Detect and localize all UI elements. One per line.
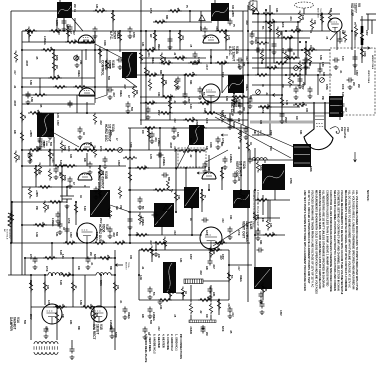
svg-text:120K: 120K (67, 146, 69, 152)
svg-text:VID AMP: VID AMP (350, 3, 354, 17)
svg-text:.001: .001 (45, 326, 47, 331)
svg-text:H.V. RECT: H.V. RECT (92, 324, 96, 340)
svg-text:330: 330 (101, 8, 104, 13)
svg-text:.047: .047 (149, 240, 152, 245)
svg-text:820K: 820K (114, 332, 117, 338)
svg-text:8. HORIZ DEFL PLATE: 8. HORIZ DEFL PLATE (144, 334, 148, 363)
svg-text:120K: 120K (63, 145, 66, 151)
svg-text:.002: .002 (215, 26, 217, 31)
svg-text:100K: 100K (206, 100, 209, 106)
svg-text:.001: .001 (147, 52, 150, 57)
svg-text:120K: 120K (205, 118, 207, 124)
svg-text:ALL VOLTAGES MEASURED FROM CHA: ALL VOLTAGES MEASURED FROM CHASSIS TO PO… (355, 190, 359, 290)
svg-text:1MEG: 1MEG (239, 275, 242, 282)
svg-text:.047: .047 (287, 55, 290, 60)
svg-text:560: 560 (23, 320, 26, 325)
svg-text:.0047: .0047 (13, 100, 16, 107)
svg-text:.0047: .0047 (205, 64, 208, 70)
svg-text:1MEG: 1MEG (77, 70, 80, 77)
svg-text:820K: 820K (221, 326, 223, 332)
svg-text:250V: 250V (284, 117, 287, 123)
svg-text:8.2K: 8.2K (235, 98, 238, 103)
svg-text:.001: .001 (223, 60, 226, 65)
svg-text:470K: 470K (221, 138, 224, 144)
svg-text:33K: 33K (341, 30, 343, 35)
svg-text:BOOST: BOOST (125, 262, 127, 270)
svg-text:135V: 135V (187, 97, 190, 103)
svg-text:4.7K: 4.7K (227, 35, 230, 40)
svg-text:470K: 470K (67, 218, 70, 224)
svg-text:1K: 1K (189, 218, 191, 221)
svg-text:120K: 120K (89, 304, 92, 310)
svg-text:HORIZ OSC: HORIZ OSC (104, 124, 108, 142)
svg-text:1K: 1K (101, 240, 104, 243)
svg-text:1K: 1K (261, 84, 263, 87)
svg-text:12K: 12K (242, 62, 245, 67)
svg-text:22K: 22K (13, 130, 15, 135)
svg-text:12K: 12K (295, 26, 297, 31)
svg-text:.0047: .0047 (169, 142, 172, 149)
svg-text:6.8K: 6.8K (301, 102, 304, 107)
svg-text:10K: 10K (207, 167, 210, 172)
svg-text:.002: .002 (221, 218, 223, 223)
svg-text:22K: 22K (205, 266, 207, 271)
svg-text:180: 180 (305, 108, 308, 113)
svg-text:.002: .002 (73, 39, 76, 44)
svg-text:3. CATHODE: 3. CATHODE (166, 334, 170, 350)
svg-text:470K: 470K (149, 8, 152, 14)
svg-text:.047: .047 (123, 84, 126, 89)
svg-text:5%: 5% (141, 206, 143, 209)
svg-text:8.2K: 8.2K (59, 160, 62, 165)
svg-text:470K: 470K (237, 230, 240, 236)
svg-text:33K: 33K (98, 192, 101, 197)
svg-text:330: 330 (69, 154, 72, 159)
svg-text:8.2K: 8.2K (83, 206, 85, 211)
svg-text:100K: 100K (103, 40, 106, 46)
svg-text:.002: .002 (173, 118, 175, 123)
svg-text:1MEG: 1MEG (127, 312, 130, 319)
svg-text:1K: 1K (82, 132, 85, 135)
svg-text:135V: 135V (279, 310, 282, 316)
svg-text:4.7K: 4.7K (239, 130, 242, 135)
svg-text:.047: .047 (231, 312, 234, 317)
svg-text:820K: 820K (151, 47, 154, 53)
svg-text:HORIZ COILS: HORIZ COILS (371, 55, 373, 70)
svg-text:.001: .001 (154, 137, 157, 142)
svg-text:68K: 68K (279, 31, 282, 36)
svg-text:330: 330 (46, 285, 49, 290)
svg-text:10K: 10K (237, 64, 239, 69)
svg-text:.001: .001 (51, 158, 53, 163)
svg-text:330: 330 (189, 330, 192, 335)
svg-text:.001: .001 (216, 247, 219, 252)
svg-text:270K: 270K (281, 48, 283, 54)
svg-text:10K: 10K (115, 206, 117, 211)
svg-text:SYNC CLIP: SYNC CLIP (230, 99, 234, 117)
svg-text:39K: 39K (189, 80, 192, 85)
svg-text:A.G.C.: A.G.C. (228, 46, 232, 56)
svg-text:4.7K: 4.7K (149, 154, 152, 159)
svg-text:68K: 68K (109, 266, 111, 271)
svg-text:820K: 820K (242, 195, 245, 201)
svg-text:820K: 820K (99, 280, 102, 286)
svg-text:VERT OUT: VERT OUT (241, 221, 245, 239)
svg-text:.002: .002 (227, 303, 229, 308)
svg-text:68K: 68K (77, 326, 79, 331)
svg-text:5%: 5% (261, 26, 263, 29)
svg-text:135V: 135V (221, 254, 223, 260)
svg-text:ALL VOLTAGES ARE D.C. UNLESS O: ALL VOLTAGES ARE D.C. UNLESS OTHERWISE S… (351, 190, 355, 290)
svg-text:8.2K: 8.2K (59, 280, 62, 285)
svg-text:330: 330 (259, 120, 262, 125)
svg-text:HOLD: HOLD (40, 141, 42, 148)
svg-text:68K: 68K (135, 90, 138, 95)
svg-text:NOTES:: NOTES: (366, 190, 370, 201)
svg-text:12K: 12K (205, 146, 207, 151)
svg-text:22K: 22K (237, 118, 239, 123)
svg-text:330: 330 (256, 215, 259, 220)
svg-text:135V: 135V (365, 30, 367, 36)
svg-text:10K: 10K (187, 148, 190, 153)
svg-text:560: 560 (107, 76, 110, 81)
svg-text:100K: 100K (363, 51, 366, 57)
svg-text:+280V: +280V (169, 94, 172, 101)
svg-text:.002: .002 (261, 48, 263, 53)
svg-text:8.2K: 8.2K (301, 15, 304, 20)
svg-text:33K: 33K (275, 8, 278, 13)
svg-text:560: 560 (329, 8, 332, 13)
svg-text:470K: 470K (106, 255, 109, 261)
svg-text:TO ANT: TO ANT (247, 2, 250, 11)
svg-text:HORIZ DISCH: HORIZ DISCH (97, 171, 101, 192)
svg-text:6.8K: 6.8K (79, 300, 82, 305)
svg-text:1MEG: 1MEG (245, 84, 248, 91)
svg-text:DAMPER: DAMPER (9, 317, 13, 332)
svg-text:+280V: +280V (29, 130, 32, 137)
svg-text:2.2MEG: 2.2MEG (95, 232, 98, 241)
svg-text:10K: 10K (313, 20, 316, 25)
svg-text:4.7K: 4.7K (47, 300, 50, 305)
svg-text:1K: 1K (249, 142, 252, 145)
svg-text:820K: 820K (63, 175, 66, 181)
svg-text:68K: 68K (46, 205, 49, 210)
svg-text:15K: 15K (212, 250, 215, 255)
svg-text:.0047: .0047 (25, 60, 28, 67)
svg-text:68K: 68K (173, 266, 175, 271)
svg-text:4.7K: 4.7K (56, 113, 59, 118)
svg-text:10K: 10K (271, 232, 274, 237)
svg-text:250V: 250V (157, 110, 159, 116)
svg-text:2.2MEG: 2.2MEG (157, 138, 159, 147)
svg-text:6.8K: 6.8K (225, 96, 228, 101)
svg-text:YOKE: YOKE (257, 130, 259, 137)
svg-text:820K: 820K (309, 166, 312, 172)
svg-text:120K: 120K (41, 222, 44, 228)
svg-text:1MEG: 1MEG (151, 57, 154, 64)
svg-text:180: 180 (237, 177, 240, 182)
svg-text:3.3K: 3.3K (221, 110, 223, 115)
svg-text:15K: 15K (79, 60, 82, 65)
svg-text:VERT COILS: VERT COILS (367, 70, 369, 84)
svg-text:15K: 15K (321, 96, 323, 101)
svg-text:33K: 33K (299, 130, 302, 135)
svg-text:270K: 270K (99, 146, 101, 152)
svg-text:1MEG: 1MEG (119, 90, 122, 97)
svg-text:.001: .001 (289, 16, 292, 21)
svg-text:250V: 250V (29, 280, 32, 286)
svg-text:.002: .002 (189, 326, 191, 331)
svg-text:.002: .002 (101, 170, 104, 175)
svg-text:MEASUREMENTS SHOWN WITH COLD C: MEASUREMENTS SHOWN WITH COLD CHASSIS OPE… (314, 190, 318, 294)
svg-text:100K: 100K (221, 72, 223, 78)
svg-text:.002: .002 (99, 120, 102, 125)
svg-text:15K: 15K (119, 205, 122, 210)
svg-text:1MEG: 1MEG (157, 44, 159, 51)
svg-text:2.2MEG: 2.2MEG (229, 154, 232, 163)
svg-text:AND TEST POINTS SHOWN IN PICTU: AND TEST POINTS SHOWN IN PICTURES WITH A… (303, 190, 307, 291)
svg-text:135V: 135V (69, 232, 72, 238)
svg-text:.0047: .0047 (181, 55, 184, 62)
svg-text:12K: 12K (55, 232, 58, 237)
svg-text:.002: .002 (112, 232, 115, 237)
svg-text:.002: .002 (173, 230, 175, 235)
svg-text:330: 330 (322, 72, 325, 77)
svg-text:270K: 270K (269, 130, 272, 136)
svg-text:10K: 10K (203, 108, 206, 113)
svg-text:15K: 15K (135, 232, 138, 237)
svg-text:6.8K: 6.8K (176, 132, 179, 137)
svg-text:1K: 1K (30, 31, 33, 34)
svg-text:820K: 820K (232, 122, 235, 128)
svg-text:180: 180 (116, 285, 119, 290)
svg-text:10K: 10K (177, 195, 180, 200)
svg-text:39K: 39K (259, 240, 262, 245)
svg-text:33K: 33K (61, 314, 63, 319)
svg-text:.001: .001 (139, 215, 142, 220)
svg-text:1K: 1K (51, 153, 54, 156)
svg-text:120K: 120K (205, 230, 207, 236)
svg-text:SHOWN AT 60 CYCLE RATE FIELD: SHOWN AT 60 CYCLE RATE FIELD (252, 190, 255, 228)
svg-text:270K: 270K (195, 120, 198, 126)
svg-text:2. GRID NO.2: 2. GRID NO.2 (170, 334, 174, 351)
svg-text:4.7K: 4.7K (197, 57, 200, 62)
svg-text:2.2MEG: 2.2MEG (43, 36, 46, 45)
svg-text:6.8K: 6.8K (191, 72, 194, 77)
svg-text:135V: 135V (301, 84, 303, 90)
svg-text:3.3K: 3.3K (93, 314, 95, 319)
svg-text:1K: 1K (225, 56, 227, 59)
svg-text:7. VERT DEFL: 7. VERT DEFL (148, 334, 152, 352)
svg-text:68K: 68K (163, 57, 166, 62)
svg-text:8.2K: 8.2K (341, 56, 343, 61)
svg-text:.0047: .0047 (108, 63, 111, 70)
svg-text:15K: 15K (289, 35, 292, 40)
svg-text:AC: AC (3, 229, 6, 232)
svg-text:1. GRID NO.1: 1. GRID NO.1 (175, 334, 179, 351)
svg-text:.0047: .0047 (173, 146, 176, 152)
svg-text:1K: 1K (121, 240, 124, 243)
svg-text:120K: 120K (129, 142, 132, 148)
svg-text:1K: 1K (73, 9, 76, 12)
svg-text:1K: 1K (147, 332, 150, 335)
svg-text:22K: 22K (83, 158, 85, 163)
svg-text:1K: 1K (184, 291, 187, 294)
svg-text:100K: 100K (341, 84, 343, 90)
svg-text:135V: 135V (189, 254, 191, 260)
svg-text:12K: 12K (308, 62, 311, 67)
svg-text:2.2MEG: 2.2MEG (51, 218, 53, 227)
svg-text:A.F.C.: A.F.C. (109, 31, 113, 40)
svg-text:6. ANODE NO.2: 6. ANODE NO.2 (153, 334, 157, 354)
svg-text:4.7K: 4.7K (285, 100, 288, 105)
svg-text:22K: 22K (212, 292, 215, 297)
svg-text:15K: 15K (67, 272, 70, 277)
svg-text:180: 180 (129, 255, 132, 260)
svg-text:+280V: +280V (57, 28, 60, 35)
svg-text:180: 180 (309, 45, 312, 50)
svg-text:10K: 10K (229, 215, 232, 220)
svg-text:CONDENSER VALUES LESS THAN 1 I: CONDENSER VALUES LESS THAN 1 IN MF, ABOV… (325, 190, 329, 287)
svg-text:.002: .002 (17, 155, 20, 160)
svg-text:560: 560 (49, 142, 52, 147)
svg-text:270K: 270K (29, 254, 31, 260)
svg-text:PIX: PIX (340, 127, 344, 131)
svg-text:.047: .047 (344, 107, 347, 112)
svg-text:10K: 10K (261, 218, 263, 223)
svg-text:6.8K: 6.8K (61, 254, 63, 259)
svg-text:1K: 1K (79, 195, 82, 198)
svg-text:MEASUREMENTS TAKEN WITH NO SIG: MEASUREMENTS TAKEN WITH NO SIGNAL INPUT … (344, 190, 348, 291)
svg-text:.002: .002 (245, 56, 247, 61)
svg-text:CONTROL: CONTROL (101, 60, 105, 76)
svg-text:22K: 22K (141, 314, 143, 319)
svg-text:330: 330 (58, 172, 61, 177)
svg-text:100K: 100K (266, 104, 269, 110)
svg-text:VOLTMETER. SETTING OF CONTRAST: VOLTMETER. SETTING OF CONTRAST UNIT AND … (337, 190, 341, 291)
svg-text:560: 560 (115, 232, 118, 237)
svg-text:470K: 470K (191, 117, 194, 123)
svg-text:6.8K: 6.8K (321, 62, 323, 67)
svg-text:560: 560 (149, 320, 152, 325)
svg-text:10K: 10K (159, 305, 162, 310)
svg-text:68K: 68K (159, 70, 162, 75)
svg-text:3.3K: 3.3K (189, 104, 191, 109)
svg-text:12K: 12K (179, 258, 182, 263)
svg-text:15K: 15K (35, 206, 37, 211)
svg-text:SELECTOR IN CHANNEL POSITION.: SELECTOR IN CHANNEL POSITION. ELECTROLYT… (333, 190, 337, 291)
svg-text:3.3K: 3.3K (139, 275, 142, 280)
svg-text:250V: 250V (29, 314, 31, 320)
svg-text:270K: 270K (45, 266, 47, 272)
svg-text:RESISTANCE VALUES IN OHMS. K=1: RESISTANCE VALUES IN OHMS. K=1000 OHMS M… (318, 190, 322, 289)
svg-text:4 POLE SYNC PULSE WITH VERT IN: 4 POLE SYNC PULSE WITH VERT INT (256, 190, 258, 231)
svg-text:PIN CONNECTIONS: PIN CONNECTIONS (179, 334, 183, 359)
svg-text:ALL DC VOLTAGES TO BE MEASURED: ALL DC VOLTAGES TO BE MEASURED WITH VTVM… (348, 190, 352, 288)
svg-text:68K: 68K (167, 177, 170, 182)
svg-text:6.8K: 6.8K (30, 97, 33, 102)
svg-text:22K: 22K (69, 320, 72, 325)
svg-text:+280V: +280V (231, 10, 234, 17)
svg-text:135V: 135V (355, 70, 358, 76)
svg-text:.047: .047 (151, 100, 154, 105)
svg-text:10K: 10K (157, 92, 160, 97)
svg-text:VOLTAGES SHOWN ARE TAKEN FROM: VOLTAGES SHOWN ARE TAKEN FROM A LINE VOL… (311, 190, 315, 287)
svg-text:250V: 250V (99, 218, 101, 224)
svg-text:120K: 120K (167, 60, 170, 66)
svg-text:4. HEATER: 4. HEATER (161, 334, 165, 348)
svg-text:10K: 10K (157, 254, 159, 259)
svg-text:12K: 12K (269, 223, 272, 228)
svg-text:.047: .047 (13, 70, 16, 75)
svg-text:470K: 470K (132, 32, 135, 38)
svg-text:+280V: +280V (35, 190, 38, 197)
svg-text:CAPACITOR VALUES IN MICROFARAD: CAPACITOR VALUES IN MICROFARADS UNLESS O… (329, 190, 333, 292)
svg-text:.002: .002 (143, 165, 146, 170)
svg-text:.002: .002 (157, 326, 159, 331)
svg-text:68K: 68K (165, 15, 168, 20)
svg-text:.047: .047 (237, 266, 240, 271)
svg-text:2.2MEG: 2.2MEG (162, 157, 165, 166)
svg-text:12K: 12K (264, 287, 267, 292)
svg-text:560: 560 (130, 107, 133, 112)
svg-text:820K: 820K (109, 130, 112, 136)
svg-text:120K: 120K (281, 22, 283, 28)
svg-text:39K: 39K (253, 130, 255, 135)
svg-text:VERT OSC: VERT OSC (235, 161, 239, 178)
svg-text:AND SND: AND SND (317, 8, 320, 18)
svg-text:3.3K: 3.3K (35, 232, 38, 237)
svg-text:1K: 1K (62, 227, 65, 230)
svg-text:6.8K: 6.8K (319, 55, 322, 60)
svg-text:820K: 820K (55, 55, 58, 61)
svg-text:820K: 820K (259, 165, 262, 171)
svg-text:6.8K: 6.8K (29, 80, 32, 85)
svg-text:.047: .047 (199, 26, 202, 31)
svg-text:.002: .002 (75, 232, 78, 237)
svg-text:470K: 470K (261, 108, 264, 114)
svg-text:.047: .047 (212, 264, 215, 269)
svg-text:12K: 12K (95, 4, 98, 9)
svg-text:.047: .047 (112, 92, 115, 97)
svg-text:8.2K: 8.2K (341, 92, 344, 97)
svg-text:820K: 820K (93, 254, 95, 260)
svg-text:ALL RESISTORS ARE 1/2 WATT UNL: ALL RESISTORS ARE 1/2 WATT UNLESS OTHERW… (322, 190, 326, 287)
svg-text:.002: .002 (245, 20, 248, 25)
svg-text:10K: 10K (77, 266, 79, 271)
svg-text:12K: 12K (61, 304, 64, 309)
svg-text:.002: .002 (153, 72, 156, 77)
svg-text:270K: 270K (289, 178, 292, 184)
svg-text:5. HEATER: 5. HEATER (157, 334, 161, 348)
svg-text:39K: 39K (164, 80, 167, 85)
svg-text:OF 117 V AC. CIRCLED LETTERS I: OF 117 V AC. CIRCLED LETTERS INDICATE AL… (307, 190, 311, 284)
svg-text:68K: 68K (109, 326, 111, 331)
svg-text:180: 180 (37, 170, 40, 175)
svg-text:100K: 100K (209, 142, 212, 148)
svg-text:120K: 120K (55, 20, 58, 26)
svg-text:.002: .002 (199, 270, 202, 275)
svg-text:68K: 68K (249, 95, 252, 100)
svg-text:560: 560 (307, 50, 310, 55)
svg-text:8.2K: 8.2K (269, 146, 271, 151)
svg-text:135V: 135V (56, 120, 59, 126)
svg-text:22K: 22K (89, 142, 92, 147)
svg-text:135V: 135V (117, 160, 120, 166)
svg-text:12K: 12K (141, 42, 144, 47)
svg-text:330: 330 (231, 5, 234, 10)
svg-text:.002: .002 (181, 35, 184, 40)
